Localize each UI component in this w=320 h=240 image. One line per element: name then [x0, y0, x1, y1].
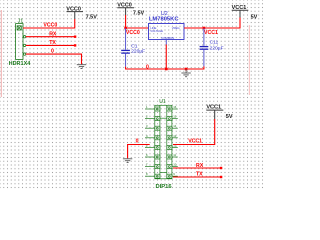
junction dot at C1 top	[124, 27, 127, 30]
wire TX from J1 pin3	[26, 44, 75, 46]
svg-text:5V: 5V	[251, 14, 258, 20]
wire 0 to U1 pin 5	[128, 145, 150, 159]
svg-text:VCC0: VCC0	[126, 30, 140, 36]
svg-text:220µF: 220µF	[210, 45, 224, 51]
svg-text:VOLTAGE: VOLTAGE	[150, 29, 163, 33]
svg-text:0: 0	[146, 65, 149, 71]
wire end dot TX	[74, 44, 76, 46]
capacitor C1	[121, 28, 130, 67]
power VCC1 symbol (bottom)	[206, 105, 223, 120]
svg-text:7.5V: 7.5V	[133, 11, 145, 17]
svg-text:14: 14	[173, 124, 177, 128]
svg-text:VCC1: VCC1	[188, 138, 202, 144]
svg-text:0: 0	[51, 49, 54, 55]
wire VCC1 to U1 pin 12	[173, 119, 215, 145]
ground GND2	[181, 69, 190, 77]
wire ground rail	[126, 66, 204, 69]
svg-text:VREG: VREG	[172, 26, 180, 30]
capacitor C11	[200, 28, 209, 66]
U1 pin numbers	[146, 105, 177, 176]
wire end dot RX (U1)	[220, 167, 222, 169]
svg-text:LM7805KC: LM7805KC	[149, 16, 179, 22]
wire regulator common down to rail	[165, 45, 167, 70]
svg-text:DIP16: DIP16	[156, 184, 173, 190]
wire VCC0 from J1 pin1 to riser	[23, 19, 75, 28]
svg-text:RX: RX	[196, 163, 204, 169]
svg-text:VCC1: VCC1	[204, 30, 218, 36]
ground GND1	[77, 65, 86, 69]
svg-text:VCC0: VCC0	[43, 23, 57, 29]
svg-text:C11: C11	[210, 40, 219, 46]
IC U1 DIP16	[145, 105, 178, 179]
svg-text:220µF: 220µF	[131, 49, 145, 55]
page border right fragment	[248, 25, 250, 95]
svg-text:0: 0	[136, 139, 139, 145]
U1 right pin leads and boxes	[167, 107, 178, 178]
junction dot at C11 top	[203, 27, 206, 30]
svg-text:16: 16	[173, 105, 177, 109]
power VCC0 symbol #1	[66, 6, 83, 19]
wire VCC0 junction to regulator input	[126, 27, 149, 29]
ground GND3	[123, 159, 132, 163]
wire VCC1 from regulator output	[184, 18, 240, 29]
wire RX from J1 pin2	[26, 36, 75, 38]
wire RX (U1)	[173, 167, 221, 169]
U1 left pin leads and boxes	[145, 107, 160, 178]
svg-text:RX: RX	[49, 31, 57, 37]
connector J1	[16, 24, 26, 60]
svg-text:11: 11	[173, 153, 176, 157]
junction dot at rail/ground	[185, 68, 188, 71]
wire VCC0 riser #2 down to junction	[125, 15, 127, 28]
svg-text:10: 10	[173, 163, 177, 167]
wire 0 from J1 pin4	[26, 54, 82, 64]
svg-text:5V: 5V	[226, 114, 233, 120]
svg-text:COMMON: COMMON	[161, 36, 174, 40]
svg-text:J1: J1	[18, 19, 24, 25]
voltage regulator U2 LM7805KC	[149, 11, 185, 44]
wire end dot TX (U1)	[220, 176, 222, 178]
svg-text:U1: U1	[159, 99, 166, 105]
wire end dot RX	[74, 36, 76, 38]
svg-text:7.5V: 7.5V	[86, 14, 98, 20]
svg-text:TX: TX	[49, 40, 56, 46]
svg-text:TX: TX	[196, 172, 203, 178]
power VCC1 symbol (top)	[232, 5, 249, 18]
svg-text:HDR1X4: HDR1X4	[9, 61, 32, 67]
wire TX (U1)	[173, 176, 221, 178]
junction dot at rail/common	[165, 68, 168, 71]
page border left fragment	[0, 10, 2, 97]
svg-text:13: 13	[173, 134, 177, 138]
power VCC0 symbol #2	[117, 2, 134, 15]
svg-text:15: 15	[173, 115, 177, 119]
